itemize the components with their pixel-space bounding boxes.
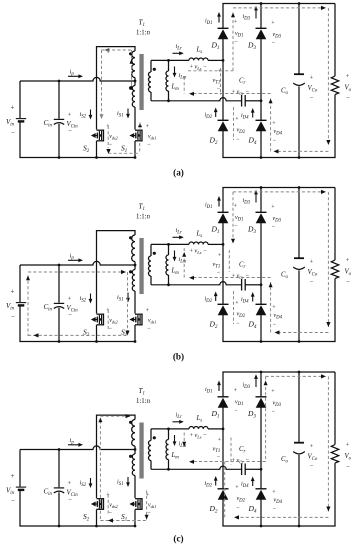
- subfigure (a): [6, 2, 352, 177]
- dashed measure vT1 (a): [220, 68, 222, 95]
- dashed measure vD2 (b): [233, 291, 235, 324]
- svg-text:(b): (b): [173, 352, 184, 362]
- dashed measure vT1 (c): [230, 438, 232, 465]
- dashed measure vds2 (b): [107, 310, 109, 330]
- dashed measure vD2 (a): [233, 107, 235, 140]
- dashed current path (a) secondary loop: [188, 70, 233, 72]
- dashed current path (b) primary loop: [27, 276, 29, 337]
- dashed current path (c) secondary loop: [265, 376, 267, 461]
- subfigure (c): [6, 371, 352, 544]
- dashed current path (c) primary loop: [99, 421, 101, 521]
- svg-text:(a): (a): [173, 168, 184, 178]
- dashed measure vT1 (b): [228, 250, 230, 272]
- dashed measure vds2 (c): [107, 495, 109, 515]
- dashed current path (b) secondary loop: [232, 192, 234, 239]
- subfigure (b): [6, 186, 352, 361]
- svg-text:(c): (c): [173, 534, 183, 544]
- dashed measure vds2 (a): [107, 50, 109, 55]
- dashed current path (a) primary loop: [101, 50, 103, 116]
